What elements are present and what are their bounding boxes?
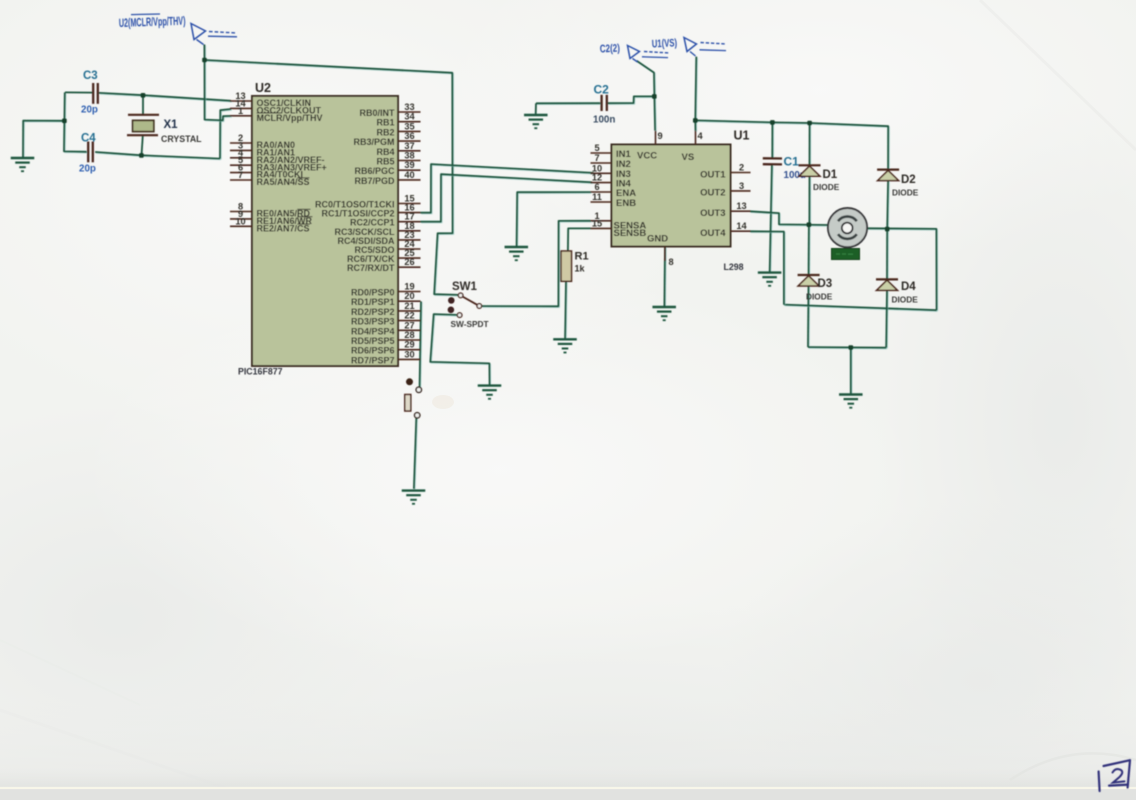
svg-text:20: 20 <box>404 291 414 301</box>
svg-text:U1: U1 <box>734 129 750 143</box>
svg-text:33: 33 <box>404 102 414 112</box>
svg-text:4: 4 <box>698 131 704 141</box>
svg-text:RB0/INT: RB0/INT <box>359 108 395 118</box>
svg-text:3: 3 <box>739 181 744 191</box>
svg-text:C3: C3 <box>83 70 98 82</box>
svg-text:30: 30 <box>404 349 414 359</box>
svg-text:1: 1 <box>238 106 243 116</box>
svg-text:2: 2 <box>739 163 744 173</box>
svg-text:RD0/PSP0: RD0/PSP0 <box>351 288 395 298</box>
svg-text:26: 26 <box>404 257 414 267</box>
svg-text:L298: L298 <box>724 262 744 272</box>
svg-text:OUT4: OUT4 <box>700 228 726 239</box>
svg-text:DIODE: DIODE <box>813 182 840 192</box>
svg-text:RD5/PSP5: RD5/PSP5 <box>351 336 395 346</box>
svg-text:OUT3: OUT3 <box>700 208 725 219</box>
svg-text:RC7/RX/DT: RC7/RX/DT <box>347 263 395 273</box>
svg-text:RD7/PSP7: RD7/PSP7 <box>351 355 395 365</box>
svg-text:D1: D1 <box>823 169 838 181</box>
svg-text:RD4/PSP4: RD4/PSP4 <box>351 326 395 336</box>
svg-text:DIODE: DIODE <box>892 295 919 305</box>
svg-text:SENSB: SENSB <box>614 228 647 239</box>
svg-text:C2: C2 <box>594 83 610 97</box>
svg-text:14: 14 <box>736 221 747 231</box>
svg-text:D4: D4 <box>901 281 916 293</box>
svg-text:U1(VS): U1(VS) <box>652 37 678 51</box>
svg-text:DIODE: DIODE <box>806 292 833 302</box>
svg-text:X1: X1 <box>164 119 179 131</box>
svg-text:RD1/PSP1: RD1/PSP1 <box>351 297 395 307</box>
svg-text:5: 5 <box>594 143 599 153</box>
svg-text:RB7/PGD: RB7/PGD <box>354 176 395 186</box>
svg-text:C4: C4 <box>81 132 96 144</box>
svg-text:22: 22 <box>404 311 414 321</box>
svg-text:VCC: VCC <box>637 151 657 162</box>
svg-text:20p: 20p <box>81 105 98 116</box>
svg-text:7: 7 <box>238 170 243 180</box>
svg-text:9: 9 <box>658 131 663 141</box>
svg-text:U2(MCLR/Vpp/THV): U2(MCLR/Vpp/THV) <box>119 15 186 31</box>
svg-text:RB1: RB1 <box>376 118 394 128</box>
svg-text:ENB: ENB <box>616 198 636 209</box>
svg-text:1k: 1k <box>575 264 586 274</box>
svg-text:RD3/PSP3: RD3/PSP3 <box>351 317 395 327</box>
svg-text:RD2/PSP2: RD2/PSP2 <box>351 307 395 317</box>
svg-text:RB4: RB4 <box>376 147 394 157</box>
svg-text:28: 28 <box>404 330 414 340</box>
svg-text:RB3/PGM: RB3/PGM <box>353 137 394 147</box>
svg-text:SW-SPDT: SW-SPDT <box>451 319 489 329</box>
svg-text:PIC16F877: PIC16F877 <box>238 367 283 377</box>
svg-text:D2: D2 <box>901 174 916 186</box>
svg-text:27: 27 <box>404 320 414 330</box>
svg-text:35: 35 <box>404 121 414 131</box>
svg-text:21: 21 <box>404 301 414 311</box>
svg-text:34: 34 <box>404 112 415 122</box>
svg-text:SW1: SW1 <box>452 281 478 293</box>
svg-text:GND: GND <box>647 234 668 245</box>
svg-text:13: 13 <box>736 201 746 211</box>
svg-text:RB2: RB2 <box>376 127 394 137</box>
svg-text:RA5/AN4/SS: RA5/AN4/SS <box>257 177 310 187</box>
svg-text:OUT2: OUT2 <box>700 188 725 199</box>
svg-text:40: 40 <box>404 170 414 180</box>
svg-text:RD6/PSP6: RD6/PSP6 <box>351 346 395 356</box>
svg-text:15: 15 <box>592 218 602 228</box>
svg-text:C2(2): C2(2) <box>600 42 621 56</box>
svg-text:C1: C1 <box>784 155 800 169</box>
svg-text:38: 38 <box>404 151 414 161</box>
svg-text:MCLR/Vpp/THV: MCLR/Vpp/THV <box>257 113 323 123</box>
svg-text:6: 6 <box>594 182 599 192</box>
svg-text:100n: 100n <box>593 115 615 126</box>
svg-text:19: 19 <box>404 282 414 292</box>
svg-text:OUT1: OUT1 <box>700 169 726 180</box>
svg-text:8: 8 <box>669 257 674 267</box>
svg-text:R1: R1 <box>575 251 589 263</box>
svg-text:RB6/PGC: RB6/PGC <box>354 166 395 176</box>
svg-text:U2: U2 <box>255 81 271 95</box>
svg-text:36: 36 <box>404 131 414 141</box>
svg-text:RB5: RB5 <box>376 157 394 167</box>
svg-text:20p: 20p <box>79 164 96 175</box>
svg-text:10: 10 <box>235 216 245 226</box>
svg-text:7: 7 <box>594 153 599 163</box>
svg-text:DIODE: DIODE <box>892 188 919 198</box>
svg-text:37: 37 <box>404 141 414 151</box>
svg-text:VS: VS <box>682 152 695 163</box>
svg-text:D3: D3 <box>818 278 833 290</box>
svg-text:39: 39 <box>404 160 414 170</box>
svg-text:CRYSTAL: CRYSTAL <box>161 134 202 144</box>
svg-text:11: 11 <box>592 192 602 202</box>
svg-text:29: 29 <box>404 340 414 350</box>
svg-text:RE2/AN7/CS: RE2/AN7/CS <box>257 223 310 233</box>
